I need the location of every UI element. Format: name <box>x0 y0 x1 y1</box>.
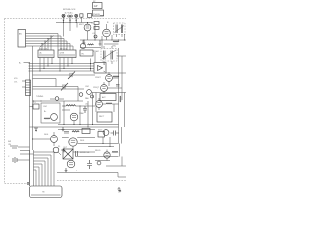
node dots bus B <box>40 63 92 72</box>
box small <box>82 129 90 134</box>
wire y166 <box>106 165 126 167</box>
svg-text:50L6: 50L6 <box>44 134 48 136</box>
output transformer T4 <box>63 149 73 159</box>
svg-text:PHON: PHON <box>93 14 100 16</box>
resistor R6 <box>72 131 79 132</box>
resistor in box <box>44 118 50 119</box>
chassis dashed border left <box>4 19 6 184</box>
resistor R3 <box>88 44 94 45</box>
wire band switch lead <box>24 62 30 64</box>
resistor R2 <box>94 27 99 30</box>
trimmer cap CT <box>50 97 64 101</box>
svg-text:OSC: OSC <box>85 86 90 88</box>
node dots mid <box>64 106 81 107</box>
small box right of plug <box>88 14 92 18</box>
wire y40 <box>80 39 126 41</box>
wire x102 vertical <box>101 36 103 48</box>
svg-text:FIELD: FIELD <box>95 150 101 152</box>
svg-text:50L6: 50L6 <box>80 140 84 142</box>
control box B2 <box>100 94 116 101</box>
tube V9 <box>104 150 110 161</box>
IF transformer T1 <box>38 50 54 58</box>
capacitor C6 <box>87 160 92 169</box>
wire y106 <box>62 105 95 107</box>
chassis dashed border bottom right <box>57 180 126 182</box>
bus A lines <box>26 34 74 47</box>
mark arrow left <box>34 128 38 131</box>
svg-text:SW: SW <box>8 141 11 143</box>
node dots right <box>103 143 111 147</box>
wire right rail 2 <box>121 56 123 100</box>
variable capacitor C3 <box>33 83 79 91</box>
wire V tube grid <box>33 138 51 140</box>
speaker box SP <box>94 63 106 74</box>
wire y156 <box>75 156 119 158</box>
pilot lamp <box>53 147 64 155</box>
resistor R10 <box>113 41 119 42</box>
svg-text:AL: AL <box>40 52 42 55</box>
wire y160 <box>95 160 110 162</box>
wire top row horizontal <box>56 22 93 24</box>
wire y152 <box>73 151 95 153</box>
wire y146.5 <box>88 146 114 148</box>
resistor R4 <box>113 76 119 77</box>
wire V3 plate <box>113 77 119 79</box>
wire x95 vertical <box>94 52 96 62</box>
wire left rail B <box>29 62 31 186</box>
tube V7 <box>69 138 77 150</box>
label small mark <box>100 15 104 17</box>
wire x96 <box>95 93 97 113</box>
svg-text:VOL: VOL <box>14 78 18 80</box>
svg-text:TUNING: TUNING <box>36 96 44 98</box>
svg-text:PAD: PAD <box>85 97 89 100</box>
tube V1 <box>84 23 91 41</box>
node dots top row <box>63 22 88 23</box>
marks right of T4 <box>76 151 78 156</box>
trimmer circle <box>79 93 83 97</box>
node dot grid <box>32 139 33 140</box>
wire corner pair <box>33 79 57 87</box>
switch S1 strip <box>26 80 31 96</box>
svg-text:OSC: OSC <box>112 46 117 48</box>
tube V8 <box>67 160 75 168</box>
chassis dashed border bottom left <box>5 183 27 185</box>
oscillator box <box>41 103 60 123</box>
svg-text:117 V.A.C.: 117 V.A.C. <box>65 12 74 15</box>
svg-text:12SA7: 12SA7 <box>93 50 99 53</box>
node dots y40 <box>84 40 126 41</box>
wire left rail A <box>32 46 34 150</box>
transistor Q1 <box>51 132 58 146</box>
svg-text:12SK: 12SK <box>60 53 65 55</box>
svg-text:SPKR FLD: SPKR FLD <box>80 152 90 154</box>
wire coil leads <box>112 34 125 40</box>
svg-text:35Z5: 35Z5 <box>98 130 102 132</box>
svg-text:.05: .05 <box>85 104 88 106</box>
phono jack box J2 <box>93 10 104 16</box>
svg-text:4.5: 4.5 <box>33 102 36 104</box>
bus C lines <box>30 125 119 130</box>
capacitor C1 <box>80 40 85 49</box>
wire diagonal fan <box>40 36 54 48</box>
capacitor C5 left <box>8 156 17 163</box>
svg-text:12A8: 12A8 <box>79 112 83 115</box>
wire x121.5 <box>121 127 123 144</box>
tube V5 <box>70 113 78 124</box>
squiggle mark bottom right <box>118 187 122 192</box>
wire verticals mid <box>64 93 93 128</box>
chassis dashed border top <box>5 18 127 20</box>
ground G3 <box>63 148 66 153</box>
wire x110 <box>109 137 111 147</box>
svg-text:12SK7: 12SK7 <box>95 77 101 79</box>
capacitor C4 <box>87 90 92 95</box>
node dots fan <box>42 36 52 45</box>
connector box tube base <box>30 186 63 198</box>
speaker jack box J1 <box>93 3 103 9</box>
svg-text:.01: .01 <box>92 33 95 35</box>
wire trimmer lead <box>30 106 34 108</box>
ground G5 <box>62 127 65 132</box>
wire x94 vertical <box>94 24 96 40</box>
box lower right <box>97 112 112 122</box>
capacitor C10 <box>116 85 120 87</box>
tube V10 <box>103 130 109 136</box>
wire T3 leads <box>104 46 112 64</box>
wire y137 <box>62 137 95 139</box>
wire x124.5 long <box>124 93 126 128</box>
variable capacitor C2 <box>33 72 96 80</box>
svg-text:AVC: AVC <box>102 96 106 99</box>
capacitor C7 <box>83 106 87 113</box>
capacitor C8 <box>111 131 120 136</box>
power plug P1 <box>62 14 83 17</box>
marks row <box>64 132 69 134</box>
junction circle bottom left <box>27 183 29 185</box>
wire y47.5 <box>80 47 101 49</box>
right cluster boxes <box>98 132 105 138</box>
wire long bottom <box>57 173 126 178</box>
node dots osc <box>33 101 42 102</box>
resistor R8 <box>106 103 112 104</box>
IF transformer T2 <box>58 50 76 58</box>
bus A corners into T2 <box>58 34 73 51</box>
wire y110 <box>62 109 70 111</box>
wire right edge stubs <box>106 56 126 73</box>
svg-text:GP: GP <box>94 5 98 8</box>
wire plug drops <box>64 23 78 37</box>
electrolytic C9 <box>97 161 101 165</box>
svg-text:PL: PL <box>58 146 60 148</box>
svg-text:ANT COIL: ANT COIL <box>39 47 48 50</box>
tube V3 <box>106 72 113 86</box>
trimmer circle 2 <box>91 95 94 98</box>
arrowheads below plug <box>63 20 78 22</box>
svg-text:INTERLOCK: INTERLOCK <box>63 9 76 11</box>
resistor R1 <box>94 22 99 25</box>
svg-text:6SK7: 6SK7 <box>79 24 84 26</box>
svg-text:22: 22 <box>91 23 93 25</box>
wire y92 <box>92 92 126 94</box>
wire plug stubs <box>64 17 82 22</box>
IF can T3 <box>101 49 117 62</box>
wire x114 <box>113 104 115 112</box>
wire y89 <box>33 88 85 90</box>
ground G4 <box>65 168 68 173</box>
wire x90.5 <box>90 59 92 72</box>
antenna terminal board TB1 <box>18 30 26 48</box>
wire y101 <box>33 100 84 102</box>
resistor R5 <box>66 105 76 106</box>
wire V4 plate <box>108 87 123 89</box>
svg-text:12SQ7: 12SQ7 <box>93 87 99 89</box>
node dots bus C <box>64 124 94 128</box>
loom nested wires <box>34 152 55 186</box>
wire x122b <box>121 157 123 167</box>
svg-text:RF COIL: RF COIL <box>60 48 67 50</box>
wire T2 pins to bus B <box>60 58 72 72</box>
wire x103 <box>102 137 104 144</box>
tube V4 <box>101 82 108 94</box>
resistor R7 <box>112 151 118 152</box>
trimmer box <box>33 104 39 109</box>
tube V6 <box>96 98 103 110</box>
svg-text:OSC: OSC <box>43 106 48 108</box>
bus B lines <box>29 64 95 72</box>
svg-text:CTL: CTL <box>14 82 18 84</box>
tube V2 <box>103 24 111 40</box>
wire y103 <box>103 103 119 105</box>
svg-text:RECT: RECT <box>99 116 105 118</box>
component left cluster <box>8 141 30 148</box>
wire gang link <box>77 87 79 102</box>
oscillator coil L1 <box>114 23 126 35</box>
cap circle small <box>94 35 97 38</box>
filter box B3 <box>80 50 93 56</box>
wire x119.5 down <box>119 144 121 157</box>
wire left rails down <box>30 150 34 186</box>
wire y44 right <box>104 43 119 45</box>
ground G2 <box>99 40 102 46</box>
resistor R9 vertical <box>120 96 121 102</box>
wire y143.5 <box>78 143 119 145</box>
wire T1 pins to bus B <box>40 58 52 72</box>
wire branch extra <box>20 151 34 155</box>
wire switch leads <box>22 81 26 87</box>
wire right rail <box>118 48 120 144</box>
ground G1 <box>83 40 86 45</box>
svg-text:FIL: FIL <box>82 54 85 56</box>
wire fan drops <box>42 36 51 50</box>
wire c5 lead <box>17 159 30 161</box>
